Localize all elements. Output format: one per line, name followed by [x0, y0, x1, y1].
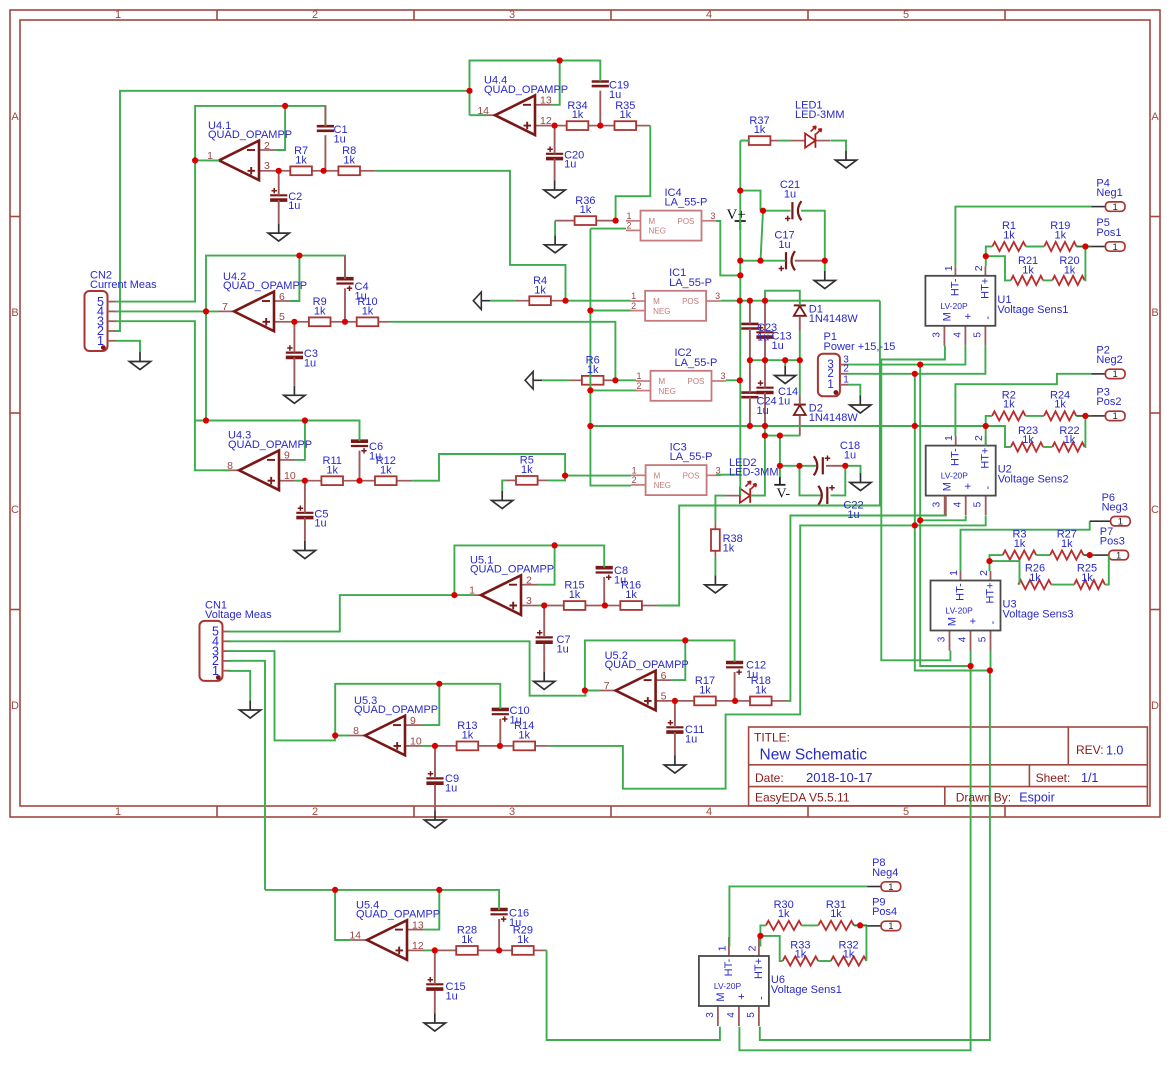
svg-text:B: B: [11, 307, 18, 319]
svg-text:2: 2: [843, 364, 849, 375]
wire U2 R2 R24 mid: [1026, 415, 1045, 417]
svg-text:1k: 1k: [1029, 572, 1041, 584]
junction: [562, 298, 568, 304]
wire CN2 pin5 to U4.1 output: [115, 160, 195, 301]
resistor R24: [1044, 411, 1076, 420]
connector P9: [867, 921, 901, 930]
wire U1 R21 R20 mid: [1043, 279, 1052, 281]
svg-text:LA_55-P: LA_55-P: [669, 277, 712, 289]
svg-text:1: 1: [948, 570, 960, 576]
svg-text:1u: 1u: [509, 917, 521, 929]
junction: [968, 663, 974, 669]
capacitor C13: [756, 325, 773, 337]
svg-text:HT-: HT-: [949, 278, 961, 296]
ground at P1: [850, 396, 871, 414]
junction: [917, 517, 923, 523]
wire U1 pin2 node to R1 row: [986, 247, 993, 257]
wire D2 bottom lead: [799, 415, 801, 435]
svg-text:1: 1: [1116, 550, 1121, 561]
svg-text:HT+: HT+: [753, 958, 765, 979]
wire C16 bottom lead: [498, 919, 500, 950]
svg-text:1k: 1k: [517, 934, 529, 946]
svg-text:Voltage Sens1: Voltage Sens1: [997, 304, 1068, 316]
junction: [342, 319, 348, 325]
junction: [1082, 413, 1088, 419]
svg-text:LED-3MM: LED-3MM: [729, 466, 779, 478]
svg-text:2: 2: [526, 575, 532, 587]
junction: [672, 698, 678, 704]
svg-text:D: D: [11, 700, 19, 712]
resistor R14: [500, 742, 549, 751]
svg-text:REV:: REV:: [1076, 743, 1104, 757]
capacitor C4: [336, 279, 353, 291]
capacitor C10: [492, 709, 509, 721]
wire R6 to IC2 pin1: [615, 379, 636, 381]
wire U2 pin3 stub link: [945, 496, 947, 515]
junction: [541, 602, 547, 608]
svg-text:Pos1: Pos1: [1096, 227, 1121, 239]
svg-text:3: 3: [931, 332, 942, 338]
junction: [557, 57, 563, 63]
svg-text:M: M: [653, 297, 660, 306]
wire C13 bottom lead: [764, 338, 766, 360]
resistor R32: [831, 956, 867, 965]
capacitor C17: [779, 251, 795, 271]
wire U6 R33 R32 mid: [818, 960, 831, 962]
ground at C5: [294, 541, 315, 559]
svg-text:1: 1: [207, 150, 213, 162]
resistor R29: [499, 946, 546, 955]
wire U6 pin2 node to R30 row: [760, 925, 766, 936]
svg-text:M: M: [654, 472, 661, 481]
svg-text:8: 8: [227, 460, 233, 472]
svg-text:Drawn By:: Drawn By:: [956, 791, 1011, 805]
junction: [552, 542, 558, 548]
capacitor C7: [536, 630, 553, 642]
ground at R36: [545, 235, 566, 253]
svg-text:1u: 1u: [314, 518, 326, 530]
wire U4.3 feedback to pin9: [295, 421, 305, 460]
wire U5.2 feedback to pin6: [672, 640, 686, 680]
wire CN2 pin2 to top rail to U4.4: [115, 91, 470, 331]
wire port to R4: [490, 300, 514, 302]
svg-text:8: 8: [353, 725, 359, 737]
svg-text:1k: 1k: [723, 543, 735, 555]
wire R37 V+ corner: [740, 140, 749, 142]
svg-text:1k: 1k: [1022, 434, 1034, 446]
svg-text:V+: V+: [727, 207, 746, 223]
junction: [857, 922, 863, 928]
svg-text:1u: 1u: [334, 133, 346, 145]
wire U5.2 pin5 to R17: [672, 700, 675, 702]
resistor R18: [735, 697, 786, 706]
junction: [762, 433, 768, 439]
resistor R16: [605, 601, 657, 610]
title block: [749, 727, 1148, 806]
junction: [496, 947, 502, 953]
svg-text:2: 2: [312, 806, 318, 818]
ground at C7: [534, 672, 555, 690]
wire U5.3 feedback loop: [335, 684, 500, 736]
resistor R15: [544, 601, 605, 610]
wire U5.4 output riser: [335, 890, 351, 940]
capacitor C14: [756, 380, 773, 392]
junction: [356, 478, 362, 484]
svg-text:14: 14: [477, 105, 489, 117]
junction: [432, 947, 438, 953]
wire V+ to C21 branch: [740, 191, 760, 211]
svg-text:1k: 1k: [518, 730, 530, 742]
capacitor C3: [286, 345, 303, 357]
junction: [777, 433, 783, 439]
wire R8 output to R4 node: [375, 171, 566, 301]
svg-text:10: 10: [410, 735, 422, 747]
svg-text:1u: 1u: [778, 239, 790, 251]
junction: [321, 168, 327, 174]
wire LED2 cathode riser: [751, 436, 765, 496]
svg-text:1: 1: [1113, 369, 1118, 380]
wire U2 pin5 drop: [915, 516, 986, 525]
svg-text:1k: 1k: [295, 154, 307, 166]
svg-text:1k: 1k: [1064, 434, 1076, 446]
resistor R2: [992, 411, 1026, 420]
svg-text:QUAD_OPAMPP: QUAD_OPAMPP: [484, 84, 568, 96]
svg-text:5: 5: [978, 636, 989, 642]
LED LED2: [725, 481, 765, 503]
wire port to R6: [542, 379, 570, 381]
svg-text:1u: 1u: [355, 290, 367, 302]
svg-text:POS: POS: [682, 297, 699, 306]
resistor R3: [1003, 551, 1036, 560]
svg-text:2: 2: [636, 381, 641, 391]
capacitor C18: [814, 456, 830, 476]
wire U2 R23 R22 mid: [1043, 446, 1052, 448]
wire U4.2 pin5 to R9: [290, 321, 294, 323]
wire U1 R21 loop corner: [986, 256, 1011, 280]
svg-text:1N4148W: 1N4148W: [809, 313, 859, 325]
svg-text:1u: 1u: [369, 450, 381, 462]
svg-text:1k: 1k: [795, 949, 807, 961]
capacitor C12: [726, 663, 743, 675]
svg-text:1k: 1k: [343, 154, 355, 166]
wire R5 left to ground: [502, 480, 505, 491]
junction: [747, 357, 753, 363]
wire C23 bottom lead: [749, 329, 751, 361]
IC IC4 LA_55-P: [626, 211, 716, 241]
wire U5.4 pin12 to R28: [423, 949, 435, 951]
svg-text:7: 7: [222, 301, 228, 313]
wire row 360 under caps: [750, 359, 800, 361]
wire U4.4 pin12 to R34: [551, 125, 555, 127]
svg-text:1u: 1u: [757, 405, 769, 417]
IC IC2 LA_55-P: [636, 371, 726, 401]
wire IC1 pin2 stub wire: [590, 310, 630, 312]
svg-text:2: 2: [312, 9, 318, 21]
wire NEG chain to IC4 pin2: [590, 228, 626, 230]
svg-text:LA_55-P: LA_55-P: [665, 197, 708, 209]
wire U4.2 feedback to pin6: [290, 256, 299, 301]
svg-text:1: 1: [827, 379, 833, 391]
capacitor C9: [426, 771, 443, 783]
wire U5.4 feedback to pin13: [423, 890, 439, 930]
svg-text:3: 3: [264, 160, 270, 172]
wire to IC3 pin1: [565, 475, 631, 477]
junction: [203, 308, 209, 314]
svg-text:HT-: HT-: [723, 958, 735, 976]
svg-text:1: 1: [97, 334, 104, 348]
wire C1 bottom lead: [324, 135, 326, 171]
svg-text:1: 1: [212, 664, 219, 678]
capacitor C2: [270, 188, 287, 200]
svg-text:1k: 1k: [572, 109, 584, 121]
wire P2 to U2 pin1: [955, 374, 1091, 436]
svg-text:+: +: [962, 313, 974, 319]
svg-text:3: 3: [937, 636, 948, 642]
svg-text:LV-20P: LV-20P: [940, 301, 968, 311]
capacitor C15: [426, 977, 443, 989]
svg-text:7: 7: [604, 680, 610, 692]
wire U5.3 output stub: [335, 735, 349, 737]
junction: [737, 272, 743, 278]
svg-text:Pos4: Pos4: [872, 906, 897, 918]
wire IC2 pin2 stub wire: [590, 389, 636, 391]
svg-text:A: A: [1151, 111, 1159, 123]
svg-text:5: 5: [903, 806, 909, 818]
wire U4.4 output link: [470, 114, 488, 116]
wire U6 pin4 rail down from U3: [739, 666, 970, 1050]
svg-text:1k: 1k: [699, 685, 711, 697]
svg-text:2: 2: [631, 301, 636, 311]
junction: [760, 208, 766, 214]
IC IC3 LA_55-P: [631, 465, 721, 495]
svg-text:2: 2: [978, 570, 990, 576]
svg-text:1: 1: [636, 371, 641, 381]
wire C2 leads: [278, 171, 280, 196]
svg-text:1k: 1k: [314, 305, 326, 317]
junction: [983, 423, 989, 429]
resistor R19: [1044, 242, 1076, 251]
junction: [762, 423, 768, 429]
wire C11 leads: [674, 701, 676, 727]
svg-text:1k: 1k: [1003, 229, 1015, 241]
svg-text:1u: 1u: [609, 89, 621, 101]
resistor R28: [435, 946, 499, 955]
svg-text:1: 1: [943, 435, 955, 441]
connector P8: [867, 882, 901, 891]
svg-text:Power +15,-15: Power +15,-15: [824, 341, 896, 353]
capacitor C1: [317, 126, 334, 131]
wire C17 right lead: [795, 260, 825, 262]
capacitor C23: [741, 324, 758, 329]
svg-text:12: 12: [412, 940, 424, 952]
capacitor C24: [741, 393, 758, 398]
junction: [986, 558, 992, 564]
capacitor C21: [785, 201, 801, 221]
wire U4.4 feedback to pin13: [551, 61, 560, 105]
resistor R13: [435, 742, 500, 751]
svg-text:4: 4: [958, 636, 969, 642]
svg-text:1: 1: [632, 466, 637, 476]
wire CN2 pin4 to U4.2 pin7: [115, 310, 218, 312]
svg-text:HT+: HT+: [985, 582, 997, 603]
svg-text:1k: 1k: [619, 109, 631, 121]
svg-text:Voltage Sens3: Voltage Sens3: [1003, 609, 1074, 621]
junction: [1082, 243, 1088, 249]
wire -15 rail: [915, 374, 990, 671]
svg-text:Neg4: Neg4: [872, 867, 898, 879]
junction: [613, 218, 619, 224]
wire D1 top loop: [765, 291, 800, 306]
connector P5: [1091, 242, 1125, 251]
svg-text:1k: 1k: [843, 949, 855, 961]
svg-text:Neg1: Neg1: [1096, 187, 1122, 199]
wire IC1 pin3 row: [721, 300, 880, 302]
wire C4 top lead: [344, 256, 346, 279]
wire C4 bottom lead: [344, 288, 346, 322]
wire C14 leads: [764, 360, 766, 388]
junction: [737, 188, 743, 194]
wire R18 to U2 pin3: [787, 515, 946, 701]
junction: [762, 357, 768, 363]
svg-text:1: 1: [1113, 202, 1118, 213]
svg-text:2: 2: [746, 945, 758, 951]
junction: [842, 463, 848, 469]
svg-text:1u: 1u: [564, 159, 576, 171]
wire C24 leads: [749, 360, 751, 392]
svg-text:1u: 1u: [772, 340, 784, 352]
svg-text:1k: 1k: [830, 908, 842, 920]
junction: [747, 298, 753, 304]
wire C10 bottom lead: [499, 719, 501, 746]
svg-text:1k: 1k: [625, 589, 637, 601]
svg-text:1u: 1u: [844, 449, 856, 461]
resistor R30: [766, 921, 802, 930]
svg-text:1: 1: [716, 945, 728, 951]
svg-text:Current Meas: Current Meas: [90, 279, 157, 291]
svg-text:QUAD_OPAMPP: QUAD_OPAMPP: [354, 704, 438, 716]
wire R38 to ground: [714, 558, 716, 575]
wire U3 pin5 link: [989, 651, 992, 671]
svg-text:3: 3: [715, 291, 720, 301]
svg-text:2: 2: [973, 265, 985, 271]
ground at CN2: [129, 352, 150, 370]
svg-text:1u: 1u: [685, 733, 697, 745]
wire U6 pin5 rail down from U3: [760, 671, 990, 1041]
svg-text:1: 1: [631, 291, 636, 301]
junction: [291, 319, 297, 325]
svg-text:Neg3: Neg3: [1102, 502, 1128, 514]
wire C18 to ground: [845, 466, 860, 473]
junction: [912, 423, 918, 429]
wire P4 to U1 pin1: [955, 207, 1091, 267]
svg-text:Neg2: Neg2: [1096, 354, 1122, 366]
svg-text:5: 5: [973, 501, 984, 507]
wire U1 R19 R1 mid: [1026, 246, 1044, 248]
svg-text:NEG: NEG: [649, 227, 666, 236]
wire P6 black lead link: [1090, 520, 1097, 522]
svg-text:1k: 1k: [462, 730, 474, 742]
ground at C18: [850, 473, 871, 491]
wire U3 R3 R27 mid: [1036, 554, 1050, 556]
wire R35 corner to IC4 pin1: [616, 126, 651, 221]
svg-text:LV-20P: LV-20P: [946, 606, 974, 616]
junction: [587, 307, 593, 313]
svg-text:1.0: 1.0: [1106, 744, 1123, 758]
wire U3 R26 R25 mid: [1051, 584, 1074, 586]
wire P1 pin1 to ground: [848, 385, 860, 396]
wire CN1 pin5 to U5.1 output: [228, 595, 454, 632]
junction: [762, 298, 768, 304]
resistor R5: [506, 476, 548, 485]
wire C8 bottom lead: [603, 577, 605, 606]
voltage sensor U3 LV-20P: [931, 571, 1001, 651]
svg-text:5: 5: [746, 1012, 757, 1018]
wire C3 leads: [293, 322, 295, 353]
svg-text:5: 5: [972, 332, 983, 338]
wire U3 R26 loop corner: [990, 561, 1020, 585]
input port at R6: [525, 372, 542, 389]
capacitor C20: [546, 147, 563, 159]
junction: [497, 743, 503, 749]
svg-text:3: 3: [526, 595, 532, 607]
op-amp U4.3: [223, 451, 295, 491]
resistor R20: [1052, 276, 1084, 285]
svg-text:Pos3: Pos3: [1100, 535, 1125, 547]
wire R31 to P9: [854, 924, 867, 926]
svg-text:1k: 1k: [754, 124, 766, 136]
junction: [1087, 552, 1093, 558]
svg-text:M: M: [942, 482, 954, 491]
ground at CN1: [240, 701, 261, 719]
junction: [796, 463, 802, 469]
resistor R17: [675, 697, 735, 706]
svg-text:A: A: [11, 111, 19, 123]
resistor R35: [600, 121, 650, 130]
svg-text:HT+: HT+: [980, 448, 992, 469]
svg-text:1k: 1k: [587, 364, 599, 376]
svg-text:Voltage Sens2: Voltage Sens2: [998, 474, 1069, 486]
svg-text:1: 1: [888, 882, 893, 893]
svg-text:1u: 1u: [847, 509, 859, 521]
wire C17 row: [740, 260, 785, 262]
svg-text:Sheet:: Sheet:: [1036, 771, 1071, 785]
wire R29 to U6 pin3: [547, 950, 720, 1040]
svg-text:4: 4: [706, 806, 712, 818]
junction: [987, 667, 993, 673]
capacitor C16: [491, 910, 508, 922]
wire U4.3 pin10 to R11: [295, 480, 305, 482]
svg-text:4: 4: [953, 501, 964, 507]
svg-text:1u: 1u: [445, 782, 457, 794]
wire U6 R33 loop corner: [760, 936, 782, 961]
svg-text:3: 3: [509, 9, 515, 21]
svg-text:QUAD_OPAMPP: QUAD_OPAMPP: [208, 129, 292, 141]
wire P6 to U3 pin1: [961, 521, 1090, 571]
svg-text:1u: 1u: [304, 358, 316, 370]
svg-text:M: M: [659, 377, 666, 386]
resistor R37: [741, 136, 779, 145]
ground at C11: [664, 756, 685, 774]
wire R4 to IC1 pin1: [566, 300, 631, 302]
ground at C20: [544, 181, 565, 199]
resistor R25: [1074, 580, 1105, 589]
svg-text:+: +: [968, 618, 980, 624]
svg-text:Voltage Meas: Voltage Meas: [205, 609, 272, 621]
junction: [917, 362, 923, 368]
wire long row 426 to U2 pin2: [590, 426, 985, 446]
junction: [757, 933, 763, 939]
junction: [757, 258, 763, 264]
